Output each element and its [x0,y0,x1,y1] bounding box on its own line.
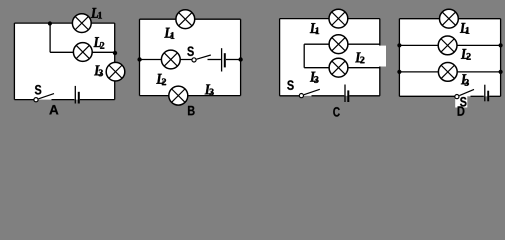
node B left junction [137,57,141,61]
switch S of circuit D [455,89,474,98]
battery of circuit C [344,85,349,103]
wire C bottom segment switch-to-battery [312,95,345,97]
circuit C enclosure [280,19,380,96]
wire B middle branch left segment [140,59,192,61]
battery of circuit D [484,85,489,102]
lamp L2 of circuit D [438,36,457,55]
wire A bottom left segment [14,99,33,101]
switch S of circuit C [299,89,320,97]
circuit A enclosure [14,23,114,100]
wire D bottom segment battery-to-right [489,95,500,97]
wire A right side [114,23,116,100]
label S of circuit A [35,85,41,95]
label L1 of circuit C [310,23,319,34]
label L1 of circuit B [164,28,174,39]
wire B left side [139,19,141,95]
lamp L3 of circuit A [106,62,125,81]
wire B bottom side [140,95,241,97]
wire D row L2 [399,44,500,46]
label L2 of circuit B [156,74,166,85]
wire C bottom left segment [280,95,299,97]
lamp L3 of circuit C [329,58,348,77]
lamp L2 of circuit B [161,50,180,69]
wire C left side [279,19,281,96]
wire A left side [13,23,15,100]
node B right junction [238,57,242,61]
lamp L1 of circuit D [440,9,459,28]
wire C bottom segment battery-to-right [349,95,380,97]
label L2 background box of circuit C [354,46,387,67]
wire D bottom left segment [399,95,454,97]
label B (circuit name) [188,106,195,115]
label C (circuit name) [333,107,340,117]
label L2 of circuit D [461,49,471,60]
circuit D enclosure [399,19,500,97]
label L2 of circuit A [94,37,105,49]
wire A top side [14,22,114,24]
label L3 of circuit D [461,74,469,85]
wire C inner left vertical [303,44,305,67]
wire A bottom segment switch-to-battery [52,99,75,101]
battery of circuit B [221,48,226,71]
label L2 of circuit C [355,52,364,63]
wire B right side [240,19,242,95]
node A right junction [113,51,117,55]
label D (circuit name) [458,106,465,115]
wire D right side [500,19,502,97]
wire D left side [398,19,400,97]
wire D row L3 [399,71,500,73]
switch S of circuit B [192,55,211,62]
node D row3 right junction [499,70,503,74]
wire A bottom segment battery-to-right [80,99,115,101]
wire C right side [379,19,381,96]
node D row2 right junction [499,43,503,47]
wire C inner row L3 [304,67,380,69]
wire C inner row L2 [304,43,380,45]
lamp L2 of circuit A [73,43,92,62]
label S background box of circuit D [455,93,467,108]
label S of circuit C [287,80,293,90]
label L3 of circuit B [205,84,214,95]
label A (circuit name) [49,105,58,114]
lamp L3 of circuit B [169,86,188,105]
label L3 of circuit C [310,72,319,83]
switch S of circuit A [34,94,54,102]
wire B middle branch switch-to-battery [208,59,221,61]
wire B top side [140,18,241,20]
battery of circuit A [75,86,80,104]
lamp L3 of circuit D [438,63,457,82]
node A top junction [48,21,52,25]
wire D bottom segment lever-to-battery [471,95,484,97]
label L3 of circuit A [94,65,103,76]
wire D top side [399,18,500,20]
lamp L1 of circuit A [72,14,91,33]
circuit B enclosure [140,19,241,95]
wire C top side [280,18,380,20]
label S of circuit B [187,46,193,56]
lamp L1 of circuit C [329,9,348,28]
wire B middle branch battery-to-right [226,59,241,61]
lamp L1 of circuit B [176,10,195,29]
wire A middle branch [50,51,115,53]
label L1 of circuit D [460,23,469,34]
lamp L2 of circuit C [329,35,348,54]
node D row3 left junction [397,70,401,74]
label L1 of circuit A [91,8,102,19]
wire A branch vertical [49,23,51,52]
label S of circuit D [460,97,466,107]
node D row2 left junction [397,43,401,47]
